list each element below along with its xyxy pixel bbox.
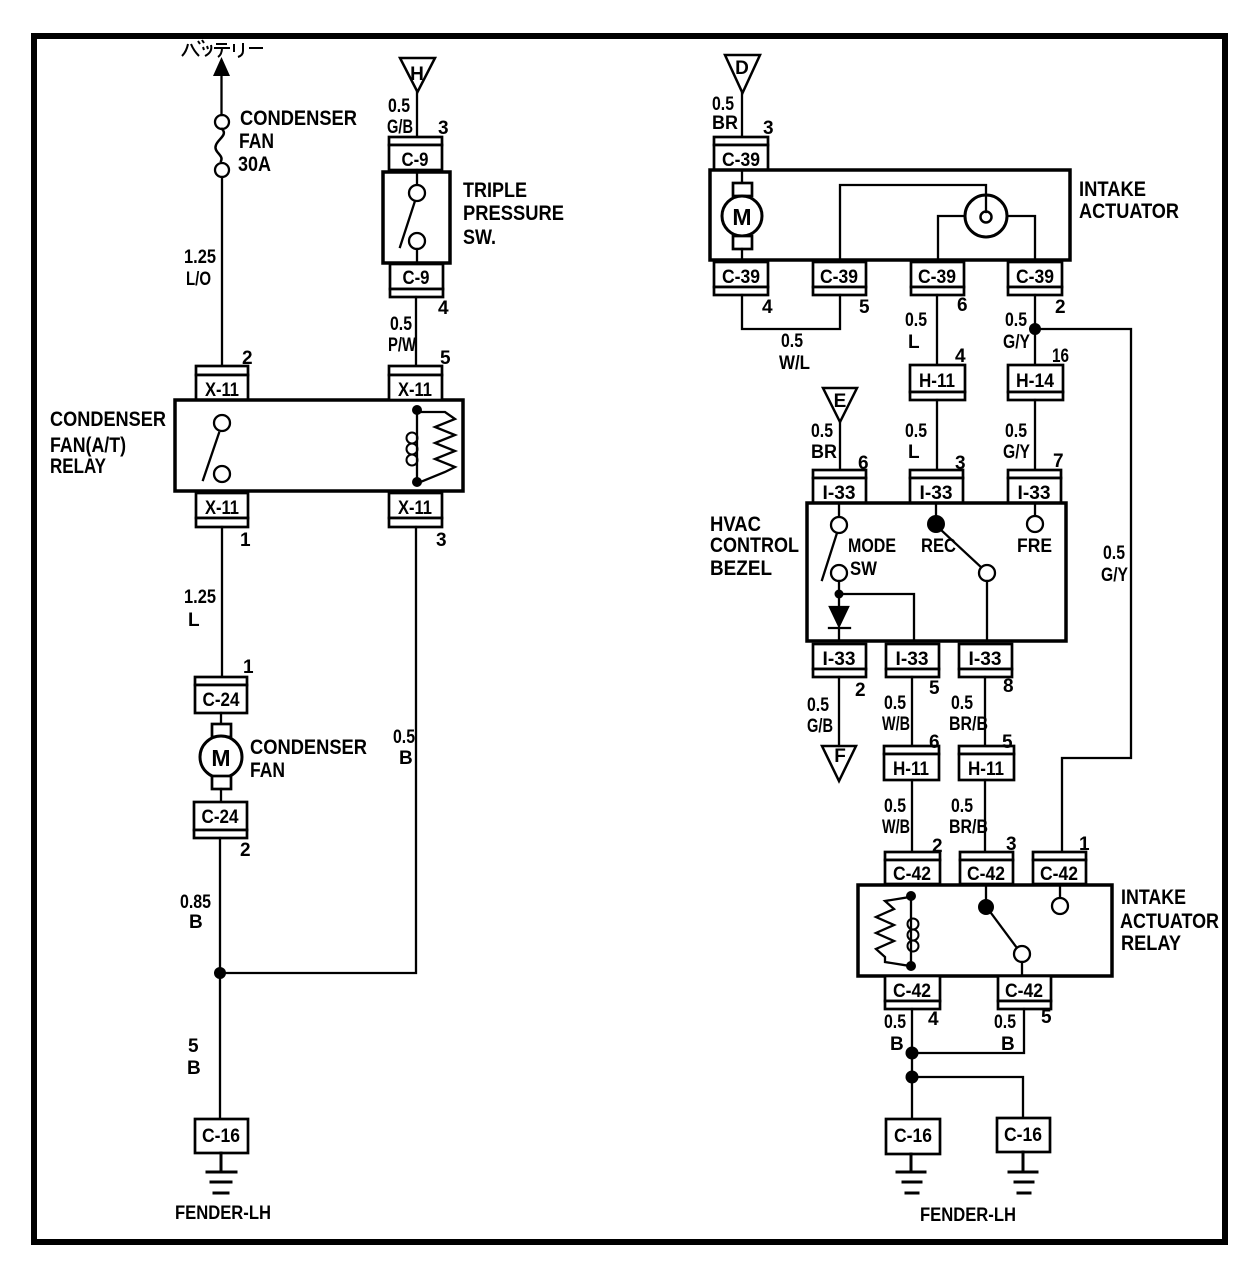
- svg-text:C-16: C-16: [202, 1126, 240, 1147]
- svg-text:M: M: [732, 204, 751, 230]
- svg-text:P/W: P/W: [388, 335, 416, 356]
- junction dot right 2: [906, 1071, 919, 1084]
- wire C-9 to X-11 pin5: [415, 297, 417, 366]
- connector C-39 pin3: [714, 137, 768, 170]
- svg-text:0.5: 0.5: [884, 1012, 906, 1033]
- svg-text:FAN(A/T): FAN(A/T): [50, 434, 126, 457]
- svg-text:16: 16: [1052, 346, 1069, 367]
- svg-text:E: E: [834, 391, 847, 412]
- svg-text:I-33: I-33: [969, 649, 1002, 670]
- junction dot mode: [835, 590, 844, 599]
- svg-text:1: 1: [243, 657, 254, 678]
- svg-text:HVAC: HVAC: [710, 513, 761, 536]
- svg-text:0.5: 0.5: [905, 421, 927, 442]
- node E triangle: [823, 388, 857, 422]
- svg-text:D: D: [735, 58, 749, 79]
- svg-text:1: 1: [1079, 834, 1090, 855]
- battery katakana: [182, 40, 263, 57]
- svg-text:0.5: 0.5: [807, 695, 829, 716]
- svg-text:C-9: C-9: [403, 268, 430, 289]
- svg-text:SW.: SW.: [463, 226, 496, 249]
- junction dot G/Y branch: [1029, 323, 1041, 335]
- relay box CONDENSER FAN(A/T) RELAY: [175, 400, 463, 491]
- svg-text:FRE: FRE: [1017, 536, 1052, 557]
- relay resistor: [418, 412, 455, 483]
- svg-text:0.5: 0.5: [994, 1012, 1016, 1033]
- motor M intake actuator: [722, 170, 762, 262]
- diode: [829, 594, 850, 641]
- wire I-33 pin2 to F: [838, 677, 840, 746]
- svg-text:0.5: 0.5: [393, 727, 415, 748]
- svg-text:C-16: C-16: [1004, 1125, 1042, 1146]
- connector I-33 pin8: [959, 644, 1012, 677]
- svg-text:0.85: 0.85: [180, 892, 211, 913]
- svg-text:RELAY: RELAY: [1121, 932, 1181, 955]
- svg-text:C-42: C-42: [893, 981, 931, 1002]
- svg-text:G/Y: G/Y: [1003, 442, 1030, 463]
- svg-text:PRESSURE: PRESSURE: [463, 202, 564, 225]
- svg-text:3: 3: [438, 118, 449, 139]
- svg-text:RELAY: RELAY: [50, 455, 106, 478]
- connector C-24 pin2: [194, 802, 247, 838]
- svg-text:X-11: X-11: [205, 380, 239, 401]
- relay switch contacts: [214, 415, 230, 431]
- svg-text:6: 6: [858, 453, 869, 474]
- svg-text:3: 3: [955, 453, 966, 474]
- svg-text:2: 2: [240, 840, 251, 861]
- svg-text:FAN: FAN: [239, 130, 274, 153]
- node D triangle: [725, 55, 760, 93]
- junction dot relay top: [412, 405, 422, 415]
- svg-text:L/O: L/O: [186, 269, 211, 290]
- svg-text:1: 1: [240, 530, 251, 551]
- connector C-16 left: [195, 1119, 248, 1153]
- svg-text:H: H: [410, 64, 424, 85]
- connector I-33 pin2: [813, 644, 866, 677]
- connector C-9 bottom: [390, 264, 443, 297]
- svg-text:BR/B: BR/B: [949, 714, 988, 735]
- wire battery to fuse: [220, 74, 222, 115]
- svg-text:X-11: X-11: [205, 498, 239, 519]
- svg-text:C-39: C-39: [820, 267, 858, 288]
- svg-text:C-42: C-42: [1005, 981, 1043, 1002]
- junction dot relay bottom: [412, 477, 422, 487]
- connector X-11 pin5: [389, 366, 442, 400]
- svg-text:BR: BR: [811, 442, 837, 463]
- svg-text:I-33: I-33: [1018, 483, 1051, 504]
- svg-text:C-39: C-39: [918, 267, 956, 288]
- svg-text:L: L: [188, 610, 200, 631]
- wire 0.5 L to H-11: [936, 295, 938, 365]
- connector C-42 pin5: [998, 976, 1051, 1009]
- connector H-11 pin6: [884, 746, 939, 780]
- svg-text:C-42: C-42: [893, 864, 931, 885]
- connector C-24 pin1: [195, 677, 247, 713]
- svg-text:5: 5: [929, 678, 940, 699]
- node H triangle: [400, 58, 435, 92]
- svg-text:5: 5: [1041, 1007, 1052, 1028]
- svg-text:C-42: C-42: [967, 864, 1005, 885]
- svg-text:4: 4: [955, 346, 966, 367]
- svg-text:5: 5: [188, 1036, 199, 1057]
- REC switch: [927, 503, 995, 641]
- connector H-11 pin4: [910, 365, 965, 400]
- wire H-11 to I-33: [936, 400, 938, 470]
- svg-text:C-39: C-39: [722, 150, 760, 171]
- connector H-11 pin5: [959, 746, 1014, 780]
- svg-text:B: B: [187, 1058, 201, 1079]
- svg-text:CONTROL: CONTROL: [710, 534, 799, 557]
- svg-text:3: 3: [763, 118, 774, 139]
- svg-text:0.5: 0.5: [884, 796, 906, 817]
- connector I-33 pin7: [1008, 470, 1061, 503]
- svg-text:F: F: [834, 746, 846, 767]
- svg-text:W/B: W/B: [882, 817, 910, 838]
- node F triangle: [822, 746, 856, 781]
- svg-text:C-24: C-24: [203, 690, 240, 711]
- svg-text:CONDENSER: CONDENSER: [50, 408, 166, 431]
- svg-text:TRIPLE: TRIPLE: [463, 179, 527, 202]
- svg-text:C-39: C-39: [1016, 267, 1054, 288]
- svg-text:H-11: H-11: [968, 759, 1004, 780]
- junction dot left: [214, 967, 226, 979]
- connector C-39 pin6: [911, 262, 964, 295]
- svg-text:W/L: W/L: [779, 353, 810, 374]
- svg-text:C-16: C-16: [894, 1126, 932, 1147]
- wire C-24 to junction: [219, 838, 221, 1119]
- svg-text:4: 4: [762, 297, 773, 318]
- svg-text:8: 8: [1003, 676, 1014, 697]
- connector I-33 pin5: [886, 644, 939, 677]
- svg-text:0.5: 0.5: [388, 96, 410, 117]
- position sensor: [840, 185, 1035, 262]
- svg-text:SW: SW: [850, 559, 877, 580]
- FRE contact: [1027, 503, 1043, 532]
- svg-text:0.5: 0.5: [1005, 421, 1027, 442]
- svg-text:B: B: [890, 1034, 904, 1055]
- svg-text:5: 5: [859, 297, 870, 318]
- svg-text:L: L: [908, 332, 920, 353]
- svg-text:G/Y: G/Y: [1003, 332, 1030, 353]
- wire G/Y long branch right: [1035, 329, 1131, 852]
- svg-text:H-11: H-11: [893, 759, 929, 780]
- ground left: [207, 1153, 236, 1193]
- svg-text:30A: 30A: [238, 153, 271, 176]
- connector C-9 top: [389, 137, 442, 170]
- svg-text:L: L: [908, 442, 920, 463]
- wire H-14 to I-33: [1034, 400, 1036, 470]
- motor M condenser fan: [200, 713, 242, 802]
- svg-text:0.5: 0.5: [811, 421, 833, 442]
- svg-text:G/B: G/B: [807, 716, 833, 737]
- svg-text:4: 4: [438, 298, 449, 319]
- svg-text:1.25: 1.25: [184, 587, 216, 608]
- svg-text:0.5: 0.5: [390, 314, 412, 335]
- connector C-16 right: [997, 1118, 1050, 1152]
- svg-text:G/Y: G/Y: [1101, 565, 1128, 586]
- svg-text:I-33: I-33: [896, 649, 929, 670]
- svg-text:H-14: H-14: [1016, 371, 1054, 392]
- relay2 coil: [910, 896, 912, 966]
- connector I-33 pin6: [813, 470, 866, 503]
- connector C-42 pin3: [960, 852, 1013, 884]
- junction dot right 1: [906, 1047, 919, 1060]
- svg-text:0.5: 0.5: [884, 693, 906, 714]
- svg-text:B: B: [399, 748, 413, 769]
- wire H-11 to C-42 pin2: [911, 780, 913, 852]
- svg-text:CONDENSER: CONDENSER: [240, 107, 357, 130]
- intake actuator box: [710, 170, 1070, 260]
- connector C-42 pin4: [885, 976, 940, 1009]
- svg-text:X-11: X-11: [398, 498, 432, 519]
- svg-text:BR: BR: [712, 113, 738, 134]
- wire 0.5 G/Y to H-14: [1034, 295, 1036, 365]
- connector C-16 mid: [886, 1119, 940, 1154]
- wire C-42 pin5 to junction: [912, 1009, 1024, 1053]
- connector C-42 pin1: [1033, 852, 1086, 884]
- wire mode to pin5: [839, 594, 914, 641]
- svg-text:1.25: 1.25: [184, 247, 216, 268]
- connector C-39 pin5: [813, 262, 866, 295]
- svg-text:C-24: C-24: [202, 807, 239, 828]
- svg-text:BR/B: BR/B: [949, 817, 988, 838]
- switch contacts: [416, 170, 418, 186]
- svg-text:7: 7: [1053, 451, 1064, 472]
- relay2 resistor: [876, 897, 910, 966]
- wire I-33 pin5 to H-11: [911, 677, 913, 746]
- svg-text:0.5: 0.5: [905, 310, 927, 331]
- battery arrow: [213, 57, 230, 76]
- svg-text:MODE: MODE: [848, 536, 896, 557]
- connector I-33 pin3: [910, 470, 963, 503]
- svg-text:B: B: [1001, 1034, 1015, 1055]
- triple pressure switch box: [383, 172, 450, 263]
- svg-text:5: 5: [1002, 732, 1013, 753]
- relay2 pin1 contact: [1052, 885, 1068, 914]
- wire W/L loop: [742, 295, 840, 329]
- wire X-11 pin1 to C-24: [221, 527, 223, 677]
- svg-text:B: B: [189, 912, 203, 933]
- svg-text:4: 4: [928, 1009, 939, 1030]
- svg-text:INTAKE: INTAKE: [1079, 178, 1146, 201]
- ground right: [1009, 1152, 1037, 1193]
- svg-text:2: 2: [855, 680, 866, 701]
- relay2 switch: [978, 885, 1030, 976]
- wire fuse to X-11: [221, 177, 223, 366]
- svg-text:M: M: [211, 745, 230, 771]
- svg-text:ACTUATOR: ACTUATOR: [1079, 200, 1179, 223]
- connector C-42 pin2: [885, 852, 940, 884]
- svg-text:FAN: FAN: [250, 759, 285, 782]
- svg-text:I-33: I-33: [920, 483, 953, 504]
- svg-text:X-11: X-11: [398, 380, 432, 401]
- svg-text:G/B: G/B: [387, 117, 413, 138]
- svg-text:3: 3: [436, 530, 447, 551]
- svg-text:H-11: H-11: [919, 371, 955, 392]
- wire E to I-33: [839, 422, 841, 470]
- connector C-39 pin4: [714, 262, 768, 295]
- svg-text:0.5: 0.5: [951, 693, 973, 714]
- connector X-11 pin2 (top-left): [196, 366, 248, 400]
- svg-text:C-9: C-9: [402, 150, 429, 171]
- junction dot relay2 bottom: [906, 961, 916, 971]
- connector C-39 pin2: [1008, 262, 1062, 295]
- fuse F 30A: [215, 115, 229, 129]
- svg-text:CONDENSER: CONDENSER: [250, 736, 367, 759]
- svg-text:0.5: 0.5: [1103, 543, 1125, 564]
- connector X-11 pin3 (bottom-right): [389, 493, 442, 527]
- svg-text:ACTUATOR: ACTUATOR: [1120, 910, 1219, 933]
- svg-text:2: 2: [932, 836, 943, 857]
- wire D to C-39: [741, 93, 743, 137]
- connector H-14 pin16: [1008, 365, 1063, 400]
- connector X-11 pin1 (bottom-left): [196, 493, 248, 527]
- junction dot relay2 top: [906, 891, 916, 901]
- svg-text:FENDER-LH: FENDER-LH: [175, 1203, 271, 1224]
- svg-text:0.5: 0.5: [1005, 310, 1027, 331]
- svg-text:REC: REC: [921, 536, 956, 557]
- wire I-33 pin8 to H-11: [984, 677, 986, 746]
- svg-text:2: 2: [1055, 297, 1066, 318]
- svg-text:BEZEL: BEZEL: [710, 557, 772, 580]
- svg-text:5: 5: [440, 348, 451, 369]
- svg-text:W/B: W/B: [882, 714, 910, 735]
- svg-text:2: 2: [242, 348, 253, 369]
- wire C-42 pin4 down: [911, 1009, 913, 1119]
- wire H-11 to C-42 pin3: [984, 780, 986, 852]
- svg-text:C-42: C-42: [1040, 864, 1078, 885]
- svg-text:FENDER-LH: FENDER-LH: [920, 1205, 1016, 1226]
- svg-text:I-33: I-33: [823, 649, 856, 670]
- mode switch: [822, 503, 847, 594]
- ground mid: [897, 1154, 925, 1193]
- svg-text:C-39: C-39: [722, 267, 760, 288]
- wire junction2 to C-16: [912, 1077, 1023, 1118]
- svg-text:6: 6: [929, 732, 940, 753]
- intake actuator relay box: [858, 885, 1112, 976]
- svg-text:I-33: I-33: [823, 483, 856, 504]
- svg-text:INTAKE: INTAKE: [1121, 886, 1186, 909]
- svg-text:0.5: 0.5: [951, 796, 973, 817]
- wire H to C-9: [416, 92, 418, 137]
- svg-text:3: 3: [1006, 834, 1017, 855]
- svg-text:0.5: 0.5: [781, 331, 803, 352]
- relay coil: [416, 410, 418, 482]
- svg-text:6: 6: [957, 295, 968, 316]
- svg-text:0.5: 0.5: [712, 94, 734, 115]
- wire 0.5B right branch: [220, 527, 416, 973]
- HVAC control bezel box: [807, 503, 1066, 641]
